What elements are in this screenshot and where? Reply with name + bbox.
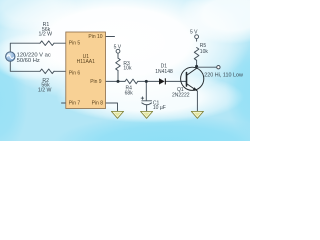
wire — [54, 42, 66, 44]
wire — [138, 80, 159, 82]
svg-text:1/2 W: 1/2 W — [38, 88, 52, 94]
node junction collector — [195, 65, 198, 68]
label R2 value — [38, 78, 52, 94]
ground (C1) — [141, 111, 153, 118]
svg-text:10k: 10k — [200, 49, 209, 55]
wire collector node — [196, 60, 198, 67]
resistor R3 — [116, 58, 121, 70]
svg-text:Pin 7: Pin 7 — [69, 101, 81, 107]
5V terminal (R3) — [116, 49, 120, 53]
svg-text:68k: 68k — [125, 91, 134, 97]
diode D1 — [159, 78, 166, 84]
output terminal — [217, 66, 220, 69]
label R1 value — [39, 22, 53, 38]
svg-text:Pin 8: Pin 8 — [92, 101, 104, 107]
wire — [196, 39, 198, 42]
ground (Q1 emitter) — [191, 111, 203, 118]
svg-text:1/2 W: 1/2 W — [39, 32, 53, 38]
capacitor C1 — [142, 101, 152, 112]
5V terminal (R5) — [195, 35, 199, 39]
wire — [118, 80, 125, 82]
ground (pin8) — [111, 111, 123, 118]
wire output — [197, 66, 217, 68]
svg-text:Pin 10: Pin 10 — [88, 34, 102, 40]
resistor R1 — [40, 41, 54, 46]
resistor R5 — [194, 48, 199, 61]
wire — [54, 70, 66, 72]
svg-text:10 µF: 10 µF — [153, 105, 166, 111]
wire — [10, 62, 40, 72]
wire pin10 stub — [106, 36, 115, 38]
label V1 value — [17, 52, 51, 64]
wire emitter to ground — [196, 91, 198, 111]
resistor R2 — [40, 69, 54, 74]
transistor Q1 — [181, 67, 204, 91]
svg-text:10k: 10k — [123, 65, 132, 71]
wire — [10, 43, 40, 52]
ic U1 H11AA1 — [66, 32, 106, 109]
svg-text:50/60 Hz: 50/60 Hz — [17, 58, 40, 64]
wire — [166, 80, 187, 82]
svg-text:Pin 9: Pin 9 — [90, 79, 102, 85]
wire — [145, 81, 147, 100]
svg-text:2N2222: 2N2222 — [172, 93, 190, 99]
wire pin8 to ground — [106, 103, 118, 111]
svg-text:5 V: 5 V — [190, 30, 198, 36]
wire pin9 — [106, 80, 119, 82]
wire pin7 stub — [62, 102, 66, 104]
svg-text:5 V: 5 V — [114, 44, 122, 50]
resistor R4 — [125, 79, 138, 84]
svg-text:H11AA1: H11AA1 — [77, 59, 95, 65]
svg-text:Pin 6: Pin 6 — [69, 71, 81, 77]
svg-text:220 Hi, 110 Low: 220 Hi, 110 Low — [204, 72, 243, 78]
svg-text:Pin 5: Pin 5 — [69, 40, 81, 46]
label C1 plus — [141, 97, 144, 100]
svg-text:1N4148: 1N4148 — [155, 69, 173, 75]
node junction C1 — [145, 80, 148, 83]
wire — [117, 53, 119, 81]
ac source V1 — [6, 52, 15, 61]
node junction pin9/R3 — [117, 80, 120, 83]
